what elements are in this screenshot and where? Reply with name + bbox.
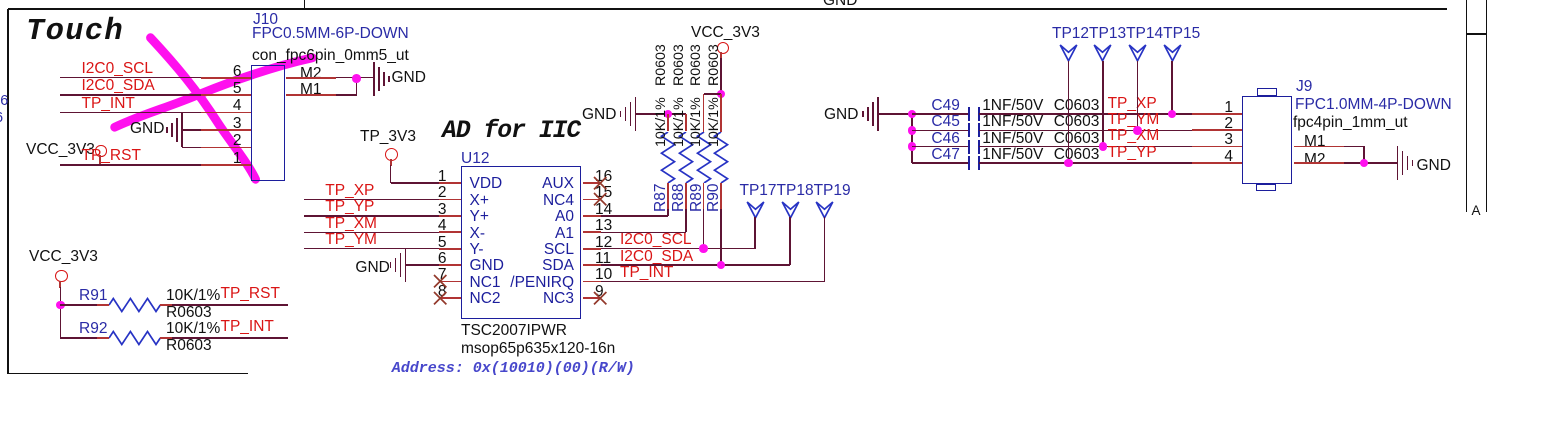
connector J10 body	[251, 65, 285, 181]
U12 pin name VDD	[470, 176, 503, 191]
wire SDA (pin 11) to TP18	[601, 264, 790, 266]
net label TP_YM	[325, 232, 377, 247]
title Touch	[26, 17, 124, 48]
net label TP_INT (J10 pin 4)	[82, 96, 135, 111]
U12 pin name A0	[555, 209, 574, 224]
J10 refdes	[253, 12, 278, 27]
junction dot bus row 2	[908, 126, 917, 135]
no-connect X at U12 pin 9	[593, 291, 607, 305]
U12 pin number 9	[595, 284, 604, 299]
resistor R92	[60, 337, 97, 339]
net label TP_XM	[325, 216, 377, 231]
test point TP17 arrow	[746, 201, 765, 219]
U12 pin 6 stub	[439, 264, 461, 266]
U12 pin number 3	[438, 202, 447, 217]
no-connect X at U12 pin 7	[433, 274, 447, 288]
net label TP_XP	[325, 183, 374, 198]
wire R90 bottom lead	[720, 183, 722, 210]
J10 pin number 1	[233, 151, 242, 166]
J10 value FPC0.5MM-6P-DOWN	[252, 26, 409, 41]
annotation magenta cross stroke 1	[105, 28, 320, 188]
U12 pin name Y-	[470, 242, 484, 257]
wire VCC_3V3 to TP_RST net	[99, 155, 101, 166]
resistor R87	[660, 132, 676, 183]
resistor R90	[713, 132, 729, 183]
J10 pin number 3	[233, 116, 242, 131]
J10 pin 4 stub	[201, 112, 251, 114]
U12 pin 14 stub	[583, 215, 602, 217]
sheet border left line	[7, 9, 9, 374]
wire J9 M2 to ground	[1294, 162, 1344, 164]
right border zone label A	[1472, 203, 1481, 218]
U12 pin number 15	[595, 185, 612, 200]
junction dot R89/SCL	[699, 244, 708, 253]
junction dot M1/M2 ground	[352, 74, 361, 83]
J10 pin number 5	[233, 81, 242, 96]
wire J10 pin 2 to ground	[182, 147, 201, 149]
net label TP_YP	[325, 199, 374, 214]
junction dot VCC/R90	[717, 90, 726, 99]
J10 footprint con_fpc6pin_0mm5_ut	[252, 48, 409, 63]
U12 pin name AUX	[542, 176, 574, 191]
sheet border right inner line	[1486, 0, 1488, 212]
wire ground rail to R87/R88	[636, 113, 686, 115]
U12 pin name Y+	[470, 209, 489, 224]
wire VCC_3V3 down to R90	[720, 52, 722, 59]
net label TP_INT at U12	[620, 265, 673, 280]
power VCC_3V3 at J10	[26, 142, 95, 157]
no-connect X at U12 pin 15	[593, 192, 607, 206]
U12 pin name NC1	[470, 275, 501, 290]
test point TP15 arrow	[1163, 44, 1182, 62]
resistor R88	[678, 132, 694, 183]
U12 pin 3 stub	[439, 215, 461, 217]
annotation magenta cross stroke 2	[105, 28, 320, 188]
U12 pin number 5	[438, 235, 447, 250]
wire TP13 drop	[1102, 61, 1104, 147]
U12 pin 15 stub	[583, 199, 602, 201]
U12 pin number 16	[595, 169, 612, 184]
J9 footprint fpc4pin_1mm_ut	[1293, 115, 1408, 130]
title AD for IIC	[442, 119, 580, 144]
wire TP19 to TP_INT	[824, 217, 826, 282]
U12 pin name NC3	[543, 291, 574, 306]
wire SCL (pin 12) to TP17	[601, 248, 755, 250]
junction dot TP15	[1168, 110, 1177, 119]
test point TP12 arrow	[1059, 44, 1078, 62]
wire R88 top lead	[685, 114, 687, 131]
junction dot VCC/R91	[56, 301, 65, 310]
test point TP19 arrow	[815, 201, 834, 219]
U12 pin 1 stub	[439, 182, 461, 184]
net label I2C0_SCL at U12	[620, 232, 692, 247]
J9 top tab	[1257, 88, 1277, 96]
U12 part number TSC2007IPWR	[461, 323, 567, 338]
J10 pin 3 stub	[201, 129, 251, 131]
test point TP18 arrow	[781, 201, 800, 219]
capacitor C47	[912, 162, 969, 164]
J10 pin 5 stub	[201, 94, 251, 96]
wire R89 bottom lead	[703, 183, 705, 210]
border zone label 6	[0, 94, 8, 109]
U12 pin number 14	[595, 202, 612, 217]
U12 pin number 6	[438, 251, 447, 266]
wire U12 pin 6 to ground	[406, 264, 439, 266]
U12 pin number 11	[595, 251, 611, 266]
J10 pin 2 stub	[201, 147, 251, 149]
capacitor C46	[912, 146, 969, 148]
capacitor ground bus	[911, 114, 913, 163]
wire I2C0_SDA to J10 pin 5	[60, 94, 201, 96]
test point TP14 arrow	[1128, 44, 1147, 62]
wire J10 pin 3 to ground	[183, 129, 201, 131]
wire TP12 drop	[1068, 61, 1070, 163]
resistor R91	[60, 304, 97, 306]
U12 refdes	[461, 151, 489, 166]
wire R90 top lead	[720, 94, 722, 132]
test point TP13 arrow	[1093, 44, 1112, 62]
U12 pin 11 stub	[583, 264, 602, 266]
power VCC_3V3 above resistors	[691, 25, 760, 40]
U12 pin 2 stub	[439, 199, 461, 201]
net label I2C0_SCL	[82, 61, 154, 76]
wire TP_3V3 to U12 pin 1	[390, 159, 392, 165]
U12 pin 10 stub	[583, 281, 602, 283]
J10 pin number 2	[233, 133, 242, 148]
U12 pin 12 stub	[583, 248, 602, 250]
test point TP_3V3 label	[360, 129, 416, 144]
sheet border bottom line	[8, 373, 248, 375]
power VCC_3V3 at R91/R92	[29, 249, 98, 264]
U12 pin 16 stub	[583, 182, 602, 184]
U12 pin number 4	[438, 218, 447, 233]
J9 refdes	[1296, 79, 1312, 94]
ground symbol right of J9	[1397, 146, 1399, 180]
junction dot TP14	[1133, 126, 1142, 135]
J9 bottom tab	[1256, 184, 1277, 192]
ground symbol right of J10	[373, 62, 375, 96]
U12 pin 4 stub	[439, 231, 461, 233]
U12 pin 7 stub	[439, 281, 461, 283]
U12 pin name X-	[470, 226, 486, 241]
junction dot TP13	[1099, 142, 1108, 151]
wire J10 M1 riser	[286, 94, 336, 96]
J10 pin 1 stub	[201, 164, 251, 166]
wire VCC rail to R89	[704, 93, 722, 95]
wire TP17 to SCL	[754, 217, 756, 249]
U12 pin name SDA	[542, 258, 574, 273]
net label I2C0_SDA	[82, 78, 155, 93]
U12 pin 9 stub	[583, 297, 602, 299]
U12 pin number 12	[595, 235, 612, 250]
sheet border top line	[8, 8, 1447, 10]
U12 pin name NC2	[470, 291, 501, 306]
net label I2C0_SDA at U12	[620, 249, 693, 264]
U12 pin name A1	[555, 226, 574, 241]
capacitor C49	[912, 113, 969, 115]
J10 pin number 4	[233, 98, 242, 113]
wire VCC_3V3 down to R92	[59, 281, 61, 288]
border zone label fragment	[0, 111, 3, 126]
wire R89 top lead	[703, 94, 705, 132]
J10 pad M2 label	[300, 66, 322, 81]
U12 pin name SCL	[544, 242, 574, 257]
U12 pin number 8	[438, 284, 447, 299]
no-connect X at U12 pin 8	[433, 291, 447, 305]
J9 value FPC1.0MM-4P-DOWN	[1295, 97, 1452, 112]
wire /PENIRQ (pin 10) to TP19	[601, 281, 825, 283]
border zone divider at x=305	[304, 0, 306, 9]
capacitor C45	[912, 130, 969, 132]
U12 pin 8 stub	[439, 297, 461, 299]
connector J9 body	[1242, 96, 1292, 184]
no-connect X at U12 pin 16	[593, 176, 607, 190]
op IC U12 body	[461, 166, 581, 319]
U12 pin 13 stub	[583, 231, 602, 233]
resistor R89	[696, 132, 712, 183]
junction dot J9 M1/M2	[1360, 159, 1369, 168]
wire TP_INT to J10 pin 4	[60, 112, 201, 114]
wire A0 (pin 14) to R87	[601, 215, 668, 217]
ground symbol at J10 pins 2-3	[181, 113, 183, 147]
U12 pin name /PENIRQ	[510, 275, 574, 290]
test point TP_3V3 circle	[385, 148, 398, 161]
junction dot bus row 1	[908, 110, 917, 119]
wire J10 M2 to ground	[286, 77, 336, 79]
U12 pin name NC4	[543, 193, 574, 208]
wire TP_XM to U12 pin 4	[304, 232, 440, 234]
wire TP_YM to U12 pin 5	[304, 248, 440, 250]
right border tick	[1467, 33, 1487, 35]
U12 pin number 2	[438, 185, 447, 200]
U12 pin number 10	[595, 267, 612, 282]
ground symbol left of R87	[635, 97, 637, 131]
net label TP_RST	[82, 148, 141, 163]
U12 footprint msop65p635x120-16n	[461, 341, 615, 356]
wire TP_YP to U12 pin 3	[304, 215, 440, 217]
wire I2C0_SCL to J10 pin 6	[60, 77, 201, 79]
J10 pad M1 label	[300, 82, 322, 97]
J10 pin 6 stub	[201, 77, 251, 79]
U12 pin name X+	[470, 193, 489, 208]
junction dot ground/R87	[664, 110, 673, 119]
wire J9 M1 riser	[1294, 146, 1344, 148]
wire TP15 drop	[1171, 61, 1173, 114]
U12 pin name GND	[470, 258, 504, 273]
wire TP_XP to U12 pin 2	[304, 199, 440, 201]
U12 pin number 7	[438, 267, 447, 282]
cropped GND text at top edge	[823, 0, 857, 8]
wire ground to capacitor bus	[878, 113, 912, 115]
J9 pad M2 label	[1304, 152, 1326, 167]
U12 pin 5 stub	[439, 248, 461, 250]
wire R87 top lead	[667, 114, 669, 131]
ground symbol left of capacitors	[877, 97, 879, 131]
U12 address note	[392, 361, 635, 376]
U12 pin number 1	[438, 169, 447, 184]
wire TP14 drop	[1137, 61, 1139, 130]
wire TP_RST to J10 pin 1	[60, 164, 201, 166]
wire A1 (pin 13) to R88	[601, 232, 686, 234]
test point labels TP12 TP13 TP14 TP15	[1052, 26, 1200, 41]
ground symbol at U12 pin 6	[405, 248, 407, 282]
U12 pin number 13	[595, 218, 612, 233]
junction dot R90/SDA	[717, 261, 726, 270]
J10 pin number 6	[233, 64, 242, 79]
sheet border right outer line	[1466, 0, 1468, 212]
test point labels TP17 TP18 TP19	[740, 183, 851, 198]
junction dot bus row 3	[908, 142, 917, 151]
J9 pad M1 label	[1304, 134, 1326, 149]
wire TP18 to SDA	[789, 217, 791, 265]
junction dot TP12	[1064, 159, 1073, 168]
